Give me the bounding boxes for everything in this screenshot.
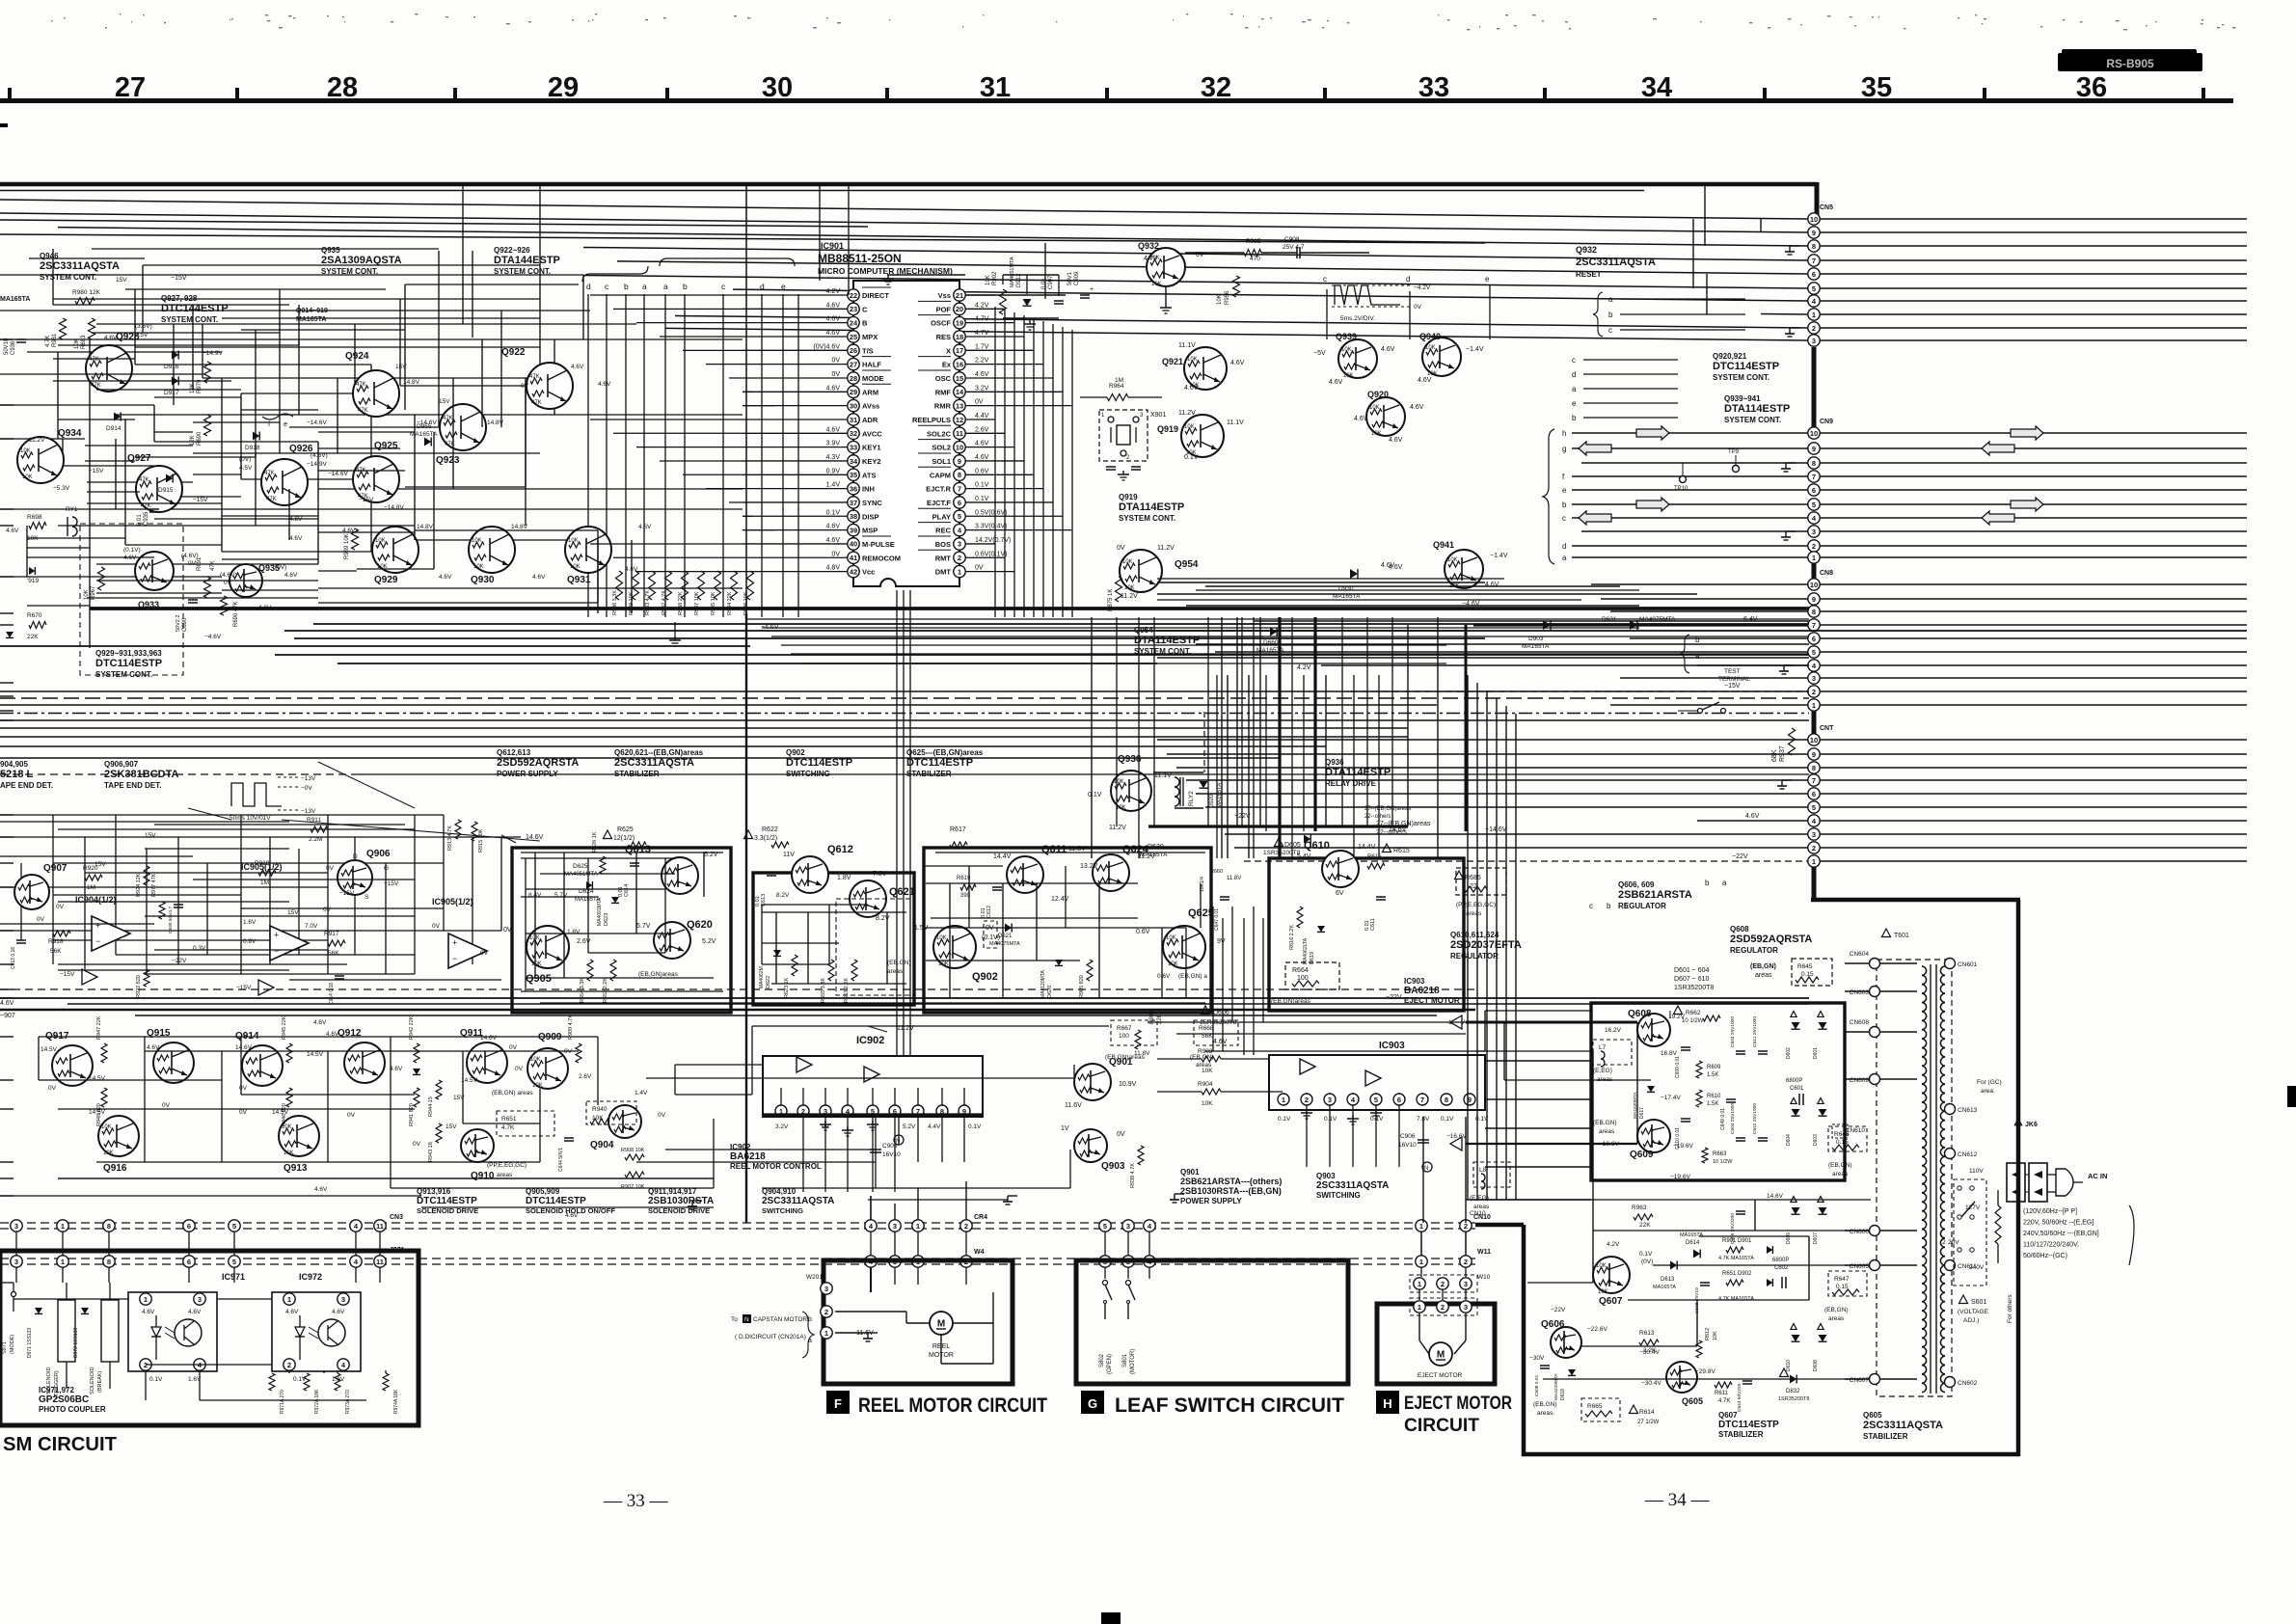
svg-text:6: 6: [1812, 486, 1816, 495]
svg-text:C608 0.01: C608 0.01: [1534, 1375, 1540, 1396]
svg-text:6: 6: [1812, 790, 1816, 798]
svg-text:1.8V: 1.8V: [837, 875, 851, 881]
svg-text:10K: 10K: [1596, 1263, 1607, 1269]
svg-text:d: d: [760, 282, 765, 291]
svg-text:7: 7: [1812, 621, 1816, 630]
svg-text:4.7V: 4.7V: [975, 316, 989, 323]
svg-text:R617: R617: [950, 826, 966, 833]
svg-text:10: 10: [956, 443, 963, 451]
svg-text:(BREAK): (BREAK): [97, 1371, 103, 1393]
svg-text:R913 4.7K: R913 4.7K: [447, 826, 453, 851]
svg-text:R907 10K: R907 10K: [621, 1184, 645, 1190]
svg-text:Q934: Q934: [58, 428, 82, 439]
svg-text:b: b: [1607, 902, 1611, 910]
svg-text:4.6V: 4.6V: [1485, 582, 1499, 588]
svg-text:Q932: Q932: [1138, 241, 1159, 251]
svg-text:2.6V: 2.6V: [579, 1073, 592, 1080]
svg-text:R610: R610: [1707, 1094, 1721, 1099]
svg-text:EJCT.R: EJCT.R: [926, 485, 951, 494]
svg-text:10: 10: [1810, 215, 1818, 224]
svg-text:(VOLTAGE: (VOLTAGE: [1958, 1309, 1989, 1315]
svg-text:27 1/2W: 27 1/2W: [1637, 1420, 1660, 1425]
svg-text:R986 3.3K: R986 3.3K: [612, 590, 618, 615]
svg-text:CN606: CN606: [1850, 1229, 1870, 1235]
svg-text:11.8V: 11.8V: [1134, 1050, 1150, 1057]
svg-text:21: 21: [956, 291, 963, 300]
svg-text:4.6V: 4.6V: [826, 524, 841, 530]
svg-text:IC972: IC972: [299, 1272, 322, 1282]
svg-text:areas: areas: [1832, 1171, 1849, 1177]
svg-text:R690: R690: [197, 431, 203, 446]
svg-text:14.5V: 14.5V: [89, 1109, 106, 1116]
svg-text:50V2.2: 50V2.2: [176, 615, 181, 632]
svg-text:CIRCUIT: CIRCUIT: [1404, 1416, 1479, 1436]
svg-text:To: To: [731, 1316, 738, 1323]
svg-text:19: 19: [956, 318, 963, 327]
svg-text:'919: '919: [27, 578, 39, 584]
svg-text:c: c: [1572, 356, 1576, 365]
svg-text:36: 36: [2076, 72, 2107, 103]
svg-text:IC971,972: IC971,972: [39, 1386, 74, 1394]
svg-text:DTC114ESTP: DTC114ESTP: [906, 757, 973, 769]
svg-text:2SC3311AQSTA: 2SC3311AQSTA: [1576, 257, 1656, 268]
svg-text:1: 1: [1812, 701, 1816, 710]
svg-text:R609: R609: [1707, 1065, 1721, 1070]
svg-text:Q902: Q902: [786, 748, 805, 757]
svg-text:27: 27: [115, 72, 146, 103]
svg-text:RES: RES: [936, 333, 951, 341]
svg-text:— 34 —: — 34 —: [1644, 1490, 1711, 1510]
svg-text:R972A 18K: R972A 18K: [314, 1389, 320, 1414]
svg-text:1: 1: [61, 1222, 65, 1231]
svg-text:10K: 10K: [84, 589, 90, 600]
svg-text:10 1/2W: 10 1/2W: [1713, 1159, 1733, 1165]
svg-text:3: 3: [1464, 1303, 1468, 1312]
svg-text:C611: C611: [1370, 918, 1376, 931]
svg-text:R971A 270: R971A 270: [280, 1390, 285, 1414]
svg-text:MA4082M: MA4082M: [759, 966, 765, 988]
svg-text:−15V: −15V: [89, 468, 104, 474]
svg-text:6800P: 6800P: [1772, 1258, 1789, 1263]
svg-text:2.2V: 2.2V: [975, 358, 989, 365]
svg-text:1: 1: [958, 567, 961, 576]
svg-text:4.2V: 4.2V: [1297, 664, 1311, 671]
svg-text:R915 10K: R915 10K: [478, 828, 484, 853]
svg-text:4.6V: 4.6V: [598, 381, 611, 388]
svg-text:4.6V: 4.6V: [1354, 416, 1368, 422]
svg-text:R941 820: R941 820: [409, 1103, 415, 1126]
svg-text:47K: 47K: [91, 383, 101, 389]
svg-text:2SB621ARSTA: 2SB621ARSTA: [1618, 889, 1692, 901]
svg-text:3: 3: [1812, 674, 1816, 683]
svg-text:IC904(1/2): IC904(1/2): [75, 895, 117, 905]
svg-text:R963: R963: [1632, 1204, 1647, 1211]
svg-text:5: 5: [958, 512, 961, 521]
svg-text:Q913,916: Q913,916: [417, 1187, 451, 1196]
svg-text:25: 25: [850, 333, 857, 341]
svg-text:(EB,GN): (EB,GN): [1824, 1307, 1849, 1313]
svg-text:10.9V: 10.9V: [1119, 1081, 1137, 1088]
svg-text:38: 38: [850, 512, 857, 521]
svg-text:27--(EB,GN)areas: 27--(EB,GN)areas: [1364, 806, 1411, 812]
svg-text:R988 22K: R988 22K: [678, 591, 684, 615]
svg-text:R947 22K: R947 22K: [96, 1015, 102, 1040]
svg-text:SYSTEM CONT.: SYSTEM CONT.: [40, 273, 96, 282]
svg-text:MA165TA: MA165TA: [1653, 1285, 1676, 1290]
svg-text:D920: D920: [1209, 794, 1215, 808]
svg-text:34: 34: [1641, 72, 1672, 103]
svg-text:h: h: [1562, 429, 1566, 438]
svg-text:0.1V: 0.1V: [1324, 1116, 1337, 1123]
svg-text:1.4V: 1.4V: [826, 482, 841, 489]
svg-text:F: F: [834, 1396, 842, 1411]
svg-text:4.6V: 4.6V: [826, 316, 841, 323]
svg-text:10: 10: [1810, 581, 1818, 589]
svg-text:2: 2: [824, 1308, 828, 1316]
svg-text:e: e: [284, 420, 287, 428]
svg-text:10K: 10K: [101, 1124, 112, 1130]
svg-text:11.6V: 11.6V: [1065, 1102, 1082, 1109]
svg-text:e: e: [781, 282, 786, 291]
svg-text:W11: W11: [1477, 1249, 1491, 1256]
svg-text:CAPM: CAPM: [930, 471, 951, 479]
svg-text:110V: 110V: [1969, 1168, 1984, 1175]
svg-text:Q905: Q905: [526, 973, 552, 985]
svg-text:D971 1SS133: D971 1SS133: [27, 1328, 33, 1358]
svg-text:Q921: Q921: [1162, 357, 1183, 366]
svg-text:2: 2: [958, 554, 961, 562]
svg-text:3.3V(0.4V): 3.3V(0.4V): [975, 524, 1007, 530]
svg-text:0V: 0V: [326, 865, 335, 872]
svg-text:R662: R662: [1686, 1010, 1701, 1016]
svg-text:SWITCHING: SWITCHING: [1316, 1191, 1361, 1200]
svg-text:12.4V: 12.4V: [1051, 896, 1069, 903]
svg-text:R615: R615: [1393, 848, 1410, 854]
svg-text:1: 1: [1419, 1258, 1423, 1266]
svg-text:3: 3: [1126, 1222, 1130, 1231]
svg-text:C604 25V1000: C604 25V1000: [1730, 1103, 1736, 1134]
svg-text:C603 25V1000: C603 25V1000: [1730, 1016, 1736, 1047]
svg-text:22--others: 22--others: [1364, 814, 1391, 820]
svg-text:S801: S801: [1122, 1353, 1128, 1367]
svg-text:0.01: 0.01: [981, 907, 986, 918]
svg-text:1: 1: [1418, 1280, 1421, 1288]
svg-text:R615: R615: [1367, 854, 1382, 860]
svg-text:Q610,611,624: Q610,611,624: [1450, 931, 1499, 939]
svg-text:SWITCHING: SWITCHING: [786, 770, 830, 778]
svg-text:2SD2037EFTA: 2SD2037EFTA: [1450, 939, 1522, 951]
svg-text:R984 22K: R984 22K: [727, 591, 733, 615]
svg-text:10 1/2W: 10 1/2W: [1682, 1018, 1704, 1024]
svg-text:8: 8: [1812, 242, 1816, 251]
svg-text:R655 3.3K: R655 3.3K: [821, 978, 826, 1003]
svg-text:G: G: [384, 865, 389, 872]
svg-text:−4.2V: −4.2V: [1414, 284, 1431, 291]
svg-text:10K: 10K: [1371, 431, 1382, 437]
svg-text:Q929~931,933,963: Q929~931,933,963: [95, 649, 162, 658]
svg-text:2SC3311AQSTA: 2SC3311AQSTA: [1316, 1180, 1389, 1191]
svg-text:CN8: CN8: [1820, 570, 1833, 577]
svg-text:3: 3: [14, 1258, 18, 1266]
svg-text:0V: 0V: [1414, 304, 1422, 311]
svg-text:R908 10K: R908 10K: [621, 1148, 645, 1153]
svg-text:S971: S971: [2, 1341, 8, 1354]
svg-text:~907: ~907: [0, 1013, 15, 1019]
svg-text:3: 3: [1812, 337, 1816, 345]
svg-text:2SA1309AQSTA: 2SA1309AQSTA: [321, 255, 402, 266]
svg-text:(EB,GN)areas: (EB,GN)areas: [638, 971, 679, 978]
svg-text:1.7V: 1.7V: [975, 343, 989, 350]
svg-text:DIRECT: DIRECT: [862, 291, 889, 300]
svg-text:11V: 11V: [783, 852, 795, 858]
svg-text:R690 47K: R690 47K: [233, 601, 239, 627]
svg-text:RMR: RMR: [934, 402, 952, 411]
svg-text:4.2V: 4.2V: [826, 288, 841, 295]
svg-text:c: c: [1608, 326, 1612, 335]
svg-text:8: 8: [107, 1222, 111, 1231]
svg-text:4.6V: 4.6V: [1381, 346, 1395, 353]
svg-text:−22V: −22V: [1732, 853, 1748, 860]
svg-text:MA165TA: MA165TA: [296, 316, 326, 323]
svg-text:MA4075MTA: MA4075MTA: [989, 941, 1020, 947]
svg-text:7: 7: [958, 484, 961, 493]
svg-text:AVCC: AVCC: [862, 429, 882, 438]
svg-text:CNT: CNT: [1820, 725, 1834, 732]
svg-text:Q906,907: Q906,907: [104, 760, 139, 769]
svg-text:MSP: MSP: [862, 527, 878, 535]
svg-text:4.7K: 4.7K: [45, 336, 51, 347]
svg-text:(EB,GN): (EB,GN): [1750, 963, 1776, 970]
svg-text:2: 2: [1464, 1258, 1468, 1266]
svg-text:D617: D617: [1639, 1107, 1645, 1119]
svg-text:Q608: Q608: [1628, 1009, 1652, 1019]
svg-text:10K: 10K: [1425, 345, 1436, 351]
svg-text:11.2V: 11.2V: [29, 437, 45, 444]
svg-text:0V: 0V: [56, 904, 65, 910]
svg-text:STABILIZER: STABILIZER: [1863, 1432, 1908, 1441]
svg-text:3: 3: [893, 1222, 897, 1231]
svg-text:0.15: 0.15: [1836, 1139, 1849, 1146]
svg-text:14.5V: 14.5V: [41, 1046, 58, 1053]
svg-text:(0V)4.6V: (0V)4.6V: [813, 343, 840, 350]
svg-text:5: 5: [1812, 284, 1816, 293]
svg-text:12K: 12K: [190, 435, 196, 446]
svg-text:2.2K: 2.2K: [1643, 1347, 1657, 1354]
svg-text:3: 3: [1812, 528, 1816, 536]
svg-text:SYSTEM CONT.: SYSTEM CONT.: [321, 267, 378, 276]
svg-text:4.6V: 4.6V: [313, 1019, 327, 1026]
svg-text:a: a: [642, 282, 647, 291]
svg-text:10K: 10K: [375, 538, 386, 544]
svg-text:1: 1: [916, 1222, 920, 1231]
svg-text:10K: 10K: [1713, 1331, 1718, 1340]
svg-text:9: 9: [1812, 595, 1816, 604]
svg-text:Q954: Q954: [1175, 559, 1199, 570]
svg-text:R670: R670: [27, 612, 42, 619]
svg-text:6: 6: [1397, 1096, 1401, 1104]
svg-text:47K: 47K: [531, 400, 542, 406]
svg-text:SYSTEM CONT.: SYSTEM CONT.: [161, 315, 218, 324]
svg-text:Q920: Q920: [1367, 390, 1389, 399]
svg-text:4.7K MA165TA: 4.7K MA165TA: [1718, 1296, 1754, 1302]
svg-text:Q607: Q607: [1718, 1411, 1738, 1420]
svg-text:4.6V: 4.6V: [314, 1186, 328, 1193]
svg-text:10K: 10K: [1114, 779, 1124, 785]
svg-text:( D.DICIRCUIT (CN201A): ( D.DICIRCUIT (CN201A): [735, 1334, 806, 1340]
svg-text:10K: 10K: [1447, 557, 1458, 563]
svg-text:3.3(1/2): 3.3(1/2): [754, 835, 777, 842]
svg-text:15V: 15V: [446, 1123, 457, 1130]
svg-text:4.5V: 4.5V: [239, 465, 253, 472]
svg-text:10K: 10K: [1187, 357, 1198, 363]
svg-text:(120V,60Hz--[P P]: (120V,60Hz--[P P]: [2023, 1208, 2077, 1215]
svg-text:0V: 0V: [162, 1102, 171, 1109]
svg-text:R645: R645: [1797, 963, 1813, 970]
svg-text:5.7V: 5.7V: [636, 923, 651, 930]
svg-text:area.: area.: [1981, 1088, 1995, 1095]
svg-text:1.5K: 1.5K: [1707, 1072, 1718, 1078]
svg-text:Q907: Q907: [43, 863, 68, 874]
svg-text:STABILIZER: STABILIZER: [1718, 1430, 1764, 1439]
svg-text:0V: 0V: [413, 1141, 421, 1148]
svg-text:D625: D625: [573, 863, 588, 870]
svg-text:4.6V: 4.6V: [571, 364, 584, 370]
svg-text:2SC3311AQSTA: 2SC3311AQSTA: [40, 260, 120, 272]
svg-text:−15V: −15V: [193, 497, 208, 503]
svg-text:Q606, 609: Q606, 609: [1618, 880, 1655, 889]
svg-text:D832: D832: [1786, 1389, 1800, 1394]
svg-text:R691: R691: [197, 556, 203, 571]
svg-text:REC: REC: [935, 527, 951, 535]
svg-text:2SK381BCDTA: 2SK381BCDTA: [104, 769, 178, 780]
svg-text:0.1V: 0.1V: [1184, 454, 1199, 461]
svg-text:4.6V: 4.6V: [285, 1309, 299, 1315]
svg-text:R664: R664: [1292, 967, 1309, 974]
svg-text:Q609: Q609: [1630, 1150, 1654, 1160]
svg-text:Q936: Q936: [1325, 758, 1344, 767]
svg-text:AC IN: AC IN: [2088, 1172, 2107, 1180]
svg-text:CN5: CN5: [1820, 204, 1833, 211]
svg-text:SM CIRCUIT: SM CIRCUIT: [3, 1434, 117, 1455]
svg-text:39: 39: [850, 526, 857, 534]
svg-text:POWER SUPPLY: POWER SUPPLY: [497, 770, 558, 778]
svg-text:c: c: [1323, 275, 1327, 284]
svg-text:Q916: Q916: [103, 1163, 127, 1174]
svg-text:10K: 10K: [1168, 961, 1178, 967]
svg-text:Q612,613: Q612,613: [497, 748, 531, 757]
svg-text:7.0V: 7.0V: [305, 923, 318, 930]
svg-text:R973A 270: R973A 270: [345, 1390, 351, 1414]
svg-text:904,905: 904,905: [0, 760, 28, 769]
svg-text:11.1V: 11.1V: [1227, 420, 1244, 426]
svg-text:MA165TA: MA165TA: [1256, 647, 1284, 654]
svg-text:−30.4V: −30.4V: [1641, 1380, 1661, 1387]
svg-text:0V: 0V: [975, 565, 984, 572]
svg-text:(PP,E,EG,GC): (PP,E,EG,GC): [1456, 902, 1496, 908]
svg-text:N: N: [744, 1316, 749, 1323]
svg-text:−15V: −15V: [171, 275, 187, 282]
svg-text:R904: R904: [1198, 1081, 1213, 1088]
svg-text:27: 27: [850, 360, 857, 368]
svg-text:6: 6: [1812, 270, 1816, 279]
svg-text:4.6V: 4.6V: [565, 1212, 579, 1219]
svg-text:1: 1: [61, 1258, 65, 1266]
svg-text:47K: 47K: [266, 497, 277, 502]
svg-text:(4.6V): (4.6V): [311, 452, 328, 459]
svg-text:RMF: RMF: [935, 388, 952, 396]
svg-text:0.3V: 0.3V: [193, 945, 206, 952]
svg-text:L7: L7: [1599, 1044, 1607, 1051]
svg-text:1: 1: [144, 1295, 148, 1304]
svg-text:C642 25V1000: C642 25V1000: [1752, 1103, 1758, 1134]
svg-text:R622: R622: [762, 826, 778, 833]
svg-text:SYNC: SYNC: [862, 499, 882, 507]
svg-text:6V: 6V: [1336, 890, 1344, 897]
svg-text:1M: 1M: [260, 880, 269, 886]
svg-text:35: 35: [1861, 72, 1892, 103]
svg-text:−15V: −15V: [236, 985, 252, 991]
svg-text:D610: D610: [1786, 1360, 1792, 1371]
svg-text:MA4091MTA: MA4091MTA: [597, 898, 603, 926]
svg-text:50/60Hz--(GC): 50/60Hz--(GC): [2023, 1253, 2067, 1259]
svg-text:CN603: CN603: [1850, 989, 1870, 996]
svg-text:4.4V: 4.4V: [928, 1123, 941, 1130]
svg-text:4.6V: 4.6V: [6, 528, 19, 534]
svg-text:−5V: −5V: [1313, 350, 1326, 357]
svg-text:RS-B905: RS-B905: [2106, 57, 2154, 70]
svg-text:D601 ~ 604: D601 ~ 604: [1674, 967, 1709, 974]
svg-text:Q922~926: Q922~926: [494, 246, 530, 255]
svg-text:40: 40: [850, 540, 857, 549]
svg-text:(3.6V): (3.6V): [135, 323, 152, 330]
svg-text:areas: areas: [497, 1172, 513, 1178]
svg-text:0V: 0V: [37, 916, 45, 923]
svg-text:CN608: CN608: [1850, 1019, 1870, 1026]
svg-text:−5.3V: −5.3V: [53, 485, 70, 492]
svg-text:Q927: Q927: [127, 453, 151, 464]
svg-text:−15V: −15V: [60, 971, 75, 978]
svg-text:0V: 0V: [48, 1085, 57, 1092]
svg-text:(OPEN): (OPEN): [1107, 1354, 1113, 1374]
svg-text:0.1V: 0.1V: [1088, 792, 1102, 798]
svg-text:REEL MOTOR CIRCUIT: REEL MOTOR CIRCUIT: [858, 1394, 1047, 1417]
svg-text:35: 35: [850, 471, 857, 479]
svg-text:42: 42: [850, 567, 857, 576]
svg-text:Q611: Q611: [1041, 844, 1067, 855]
svg-text:5.2V: 5.2V: [702, 938, 716, 945]
svg-text:AVss: AVss: [862, 402, 879, 411]
svg-text:2: 2: [1441, 1303, 1445, 1312]
svg-text:8: 8: [1812, 608, 1816, 616]
svg-text:4.6V: 4.6V: [1184, 385, 1199, 392]
svg-text:10K: 10K: [938, 961, 949, 967]
svg-text:9V: 9V: [1217, 938, 1226, 945]
svg-text:2: 2: [1441, 1280, 1445, 1288]
svg-text:CN610: CN610: [1846, 1127, 1866, 1134]
svg-text:4.2V: 4.2V: [975, 302, 989, 309]
svg-text:1: 1: [1418, 1303, 1421, 1312]
svg-text:3: 3: [14, 1222, 18, 1231]
svg-text:D620: D620: [1047, 986, 1053, 998]
svg-text:Q929: Q929: [374, 575, 398, 585]
svg-text:SOL2: SOL2: [932, 444, 951, 452]
svg-text:(EB,GN) a: (EB,GN) a: [1178, 973, 1207, 980]
svg-text:4.6V: 4.6V: [1410, 404, 1424, 411]
svg-text:R647: R647: [1834, 1276, 1850, 1283]
svg-text:b: b: [683, 282, 688, 291]
svg-text:+: +: [452, 938, 457, 948]
svg-text:(4.6V): (4.6V): [220, 572, 237, 579]
